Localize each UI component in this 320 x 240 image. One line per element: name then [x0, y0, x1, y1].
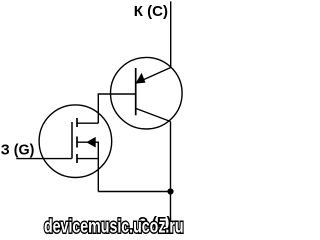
transistor Q1 circle	[111, 57, 183, 129]
junction dot	[167, 188, 173, 194]
mosfet Q2 source channel segment	[76, 154, 78, 163]
mosfet Q2 body lead with arrow	[77, 137, 98, 192]
svg-text:devicemusic.ucoz.ru: devicemusic.ucoz.ru	[44, 214, 184, 237]
svg-text:З (G): З (G)	[1, 143, 35, 159]
mosfet Q2 gate bar	[71, 122, 73, 159]
wire drain lead	[77, 122, 99, 124]
wire collector lead	[170, 1, 172, 67]
wire gate lead	[16, 158, 72, 160]
wire base lead	[98, 94, 135, 123]
transistor Q1 base bar	[135, 68, 137, 115]
svg-text:К (С): К (С)	[134, 3, 168, 20]
mosfet Q2 circle	[39, 105, 112, 178]
wire emitter vertical	[170, 122, 172, 224]
wire bottom horizontal	[98, 191, 170, 193]
wire source lead	[77, 158, 98, 160]
watermark devicemusic.ucoz.ru	[44, 214, 184, 237]
mosfet Q2 drain channel segment	[76, 118, 78, 127]
mosfet Q2 body channel segment	[76, 137, 78, 148]
transistor Q1 collector diagonal	[136, 108, 171, 121]
transistor Q1 emitter with arrow	[136, 68, 171, 84]
